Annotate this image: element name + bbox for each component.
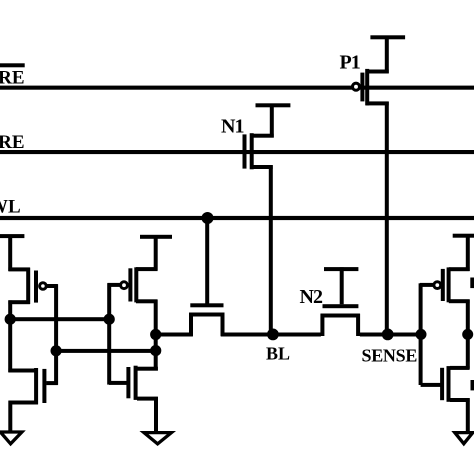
wire P1 drain to SENSE [385,102,389,335]
svg-text:PRE: PRE [0,132,25,153]
wire output inverter gate rail [419,283,423,385]
wire inverter1 output vertical [8,300,12,372]
wire N2 to SENSE [360,333,388,337]
power VDD bar of output inverter [453,234,474,238]
clock bar of N2 gate [324,267,358,271]
wire output inverter output vertical [466,300,470,369]
power VDD bar of latch inverter 1 [0,234,24,238]
net PREbar overline [0,63,25,67]
svg-text:SENSE: SENSE [362,346,418,366]
ground of output inverter [455,433,473,444]
wire access transistor to BL [221,333,273,337]
node inverter output junction [462,329,473,340]
wire WL rail [0,216,474,220]
ground of inverter1 [0,432,22,444]
power VDD bar of N1 [256,103,291,107]
wire inverter1 to ground [8,401,12,432]
svg-text:PRE: PRE [0,68,25,89]
wire inverter1 gate rail [54,284,58,385]
node SENSE junction [382,329,394,341]
label partial N3 at edge [471,380,474,390]
node W2 to inverter1 gate junction [51,345,62,356]
node WL junction [202,212,214,224]
label partial P2 at edge [470,278,474,289]
node inverter2 output to W2 junction [150,345,161,356]
wire BL to N2 [273,333,321,337]
transistor N1 [243,105,274,169]
wire latch to access transistor [156,333,193,337]
node W1 to inverter2 gate junction [104,314,115,325]
power VDD bar of latch inverter 2 [140,235,172,239]
transistor latch NMOS 1 [8,368,57,405]
transistor access pass-gate [189,217,225,336]
node inverter input junction [416,329,427,340]
node BL junction [267,329,279,341]
svg-text:BL: BL [266,344,290,364]
svg-text:WL: WL [0,197,21,218]
wire cross-couple W1 [8,317,110,321]
svg-text:N2: N2 [300,286,323,308]
wire PRE rail [0,150,474,154]
wire output inverter to ground [466,398,470,431]
transistor latch PMOS 1 [8,236,58,304]
transistor output inverter PMOS [420,236,470,304]
wire SENSE to inverter input [388,333,422,337]
ground of inverter2 [144,433,171,444]
svg-text:N1: N1 [221,116,243,138]
power VDD bar of P1 [370,35,405,39]
transistor P1 [353,37,389,105]
wire inverter2 to ground [154,397,158,432]
wire PREbar rail [0,86,474,90]
node inverter1 output junction [5,314,16,325]
wire inverter2 output vertical [154,300,158,371]
wire inverter2 gate rail [107,283,111,384]
transistor latch NMOS 2 [109,366,158,401]
transistor output inverter NMOS [421,366,470,402]
transistor N2 [320,267,360,336]
wire cross-couple W2 [54,349,157,353]
node inverter2 output to bitline-wire junction [150,329,161,340]
wire N1 source to BL [269,165,273,334]
svg-text:P1: P1 [340,52,360,74]
transistor latch PMOS 2 [108,237,158,304]
